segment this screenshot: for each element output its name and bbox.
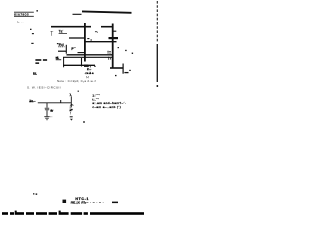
svg-text:ƞi.: ƞi.	[56, 56, 60, 60]
svg-text:}.: }.	[70, 92, 72, 96]
svg-text:ЯE.|Χ ЯЪ–: ЯE.|Χ ЯЪ–	[71, 201, 89, 205]
svg-text:L. . ·: L. . ·	[18, 20, 24, 24]
svg-text:S. W. IESI–CIRCUIl: S. W. IESI–CIRCUIl	[27, 85, 61, 89]
svg-text:Ț: Ț	[50, 31, 53, 37]
svg-text:Ǝɑ.–: Ǝɑ.–	[29, 99, 36, 103]
svg-text:II:I.: II:I.	[33, 71, 37, 75]
svg-text:c–am a–..anb (´): c–am a–..anb (´)	[92, 105, 121, 109]
svg-text:Note : Cₗ=2µF, C₂a 2·ю·ż: Note : Cₗ=2µF, C₂a 2·ю·ż	[57, 79, 96, 83]
svg-text:. .: . .	[50, 114, 53, 118]
svg-text:–.: –.	[95, 29, 98, 33]
svg-text:Τa´: Τa´	[59, 30, 64, 34]
svg-text:P´´: P´´	[71, 47, 75, 51]
svg-text:F=l: F=l	[59, 43, 64, 47]
svg-text:&r: &r	[50, 109, 53, 113]
svg-text:· – · – ·: · – · – ·	[90, 200, 104, 204]
svg-text:KIA78O5: KIA78O5	[14, 12, 29, 16]
